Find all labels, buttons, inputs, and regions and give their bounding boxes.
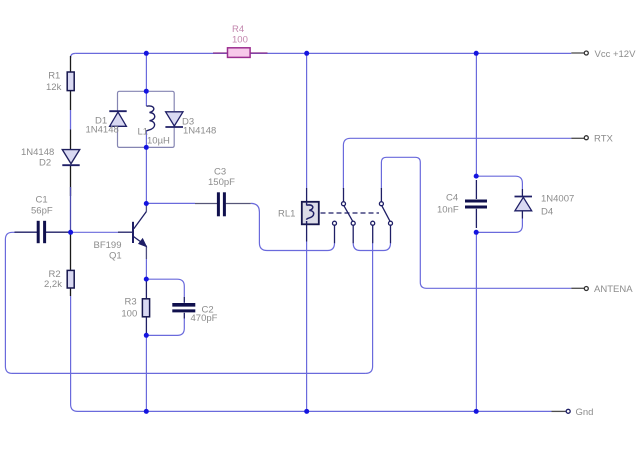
- svg-text:ANTENA: ANTENA: [594, 284, 633, 295]
- svg-text:100: 100: [121, 308, 137, 319]
- svg-text:RTX: RTX: [594, 134, 613, 145]
- svg-text:C4: C4: [446, 192, 458, 203]
- svg-text:C1: C1: [36, 195, 48, 206]
- svg-text:R3: R3: [125, 297, 137, 308]
- svg-text:1N4148: 1N4148: [183, 126, 216, 137]
- svg-text:Q1: Q1: [109, 251, 122, 262]
- svg-text:C3: C3: [214, 167, 226, 178]
- svg-text:R4: R4: [232, 24, 244, 35]
- svg-text:1N4148: 1N4148: [86, 125, 119, 136]
- svg-text:10µH: 10µH: [147, 136, 170, 147]
- svg-text:BF199: BF199: [94, 240, 122, 251]
- svg-text:12k: 12k: [46, 82, 62, 93]
- svg-text:1N4007: 1N4007: [541, 194, 574, 205]
- svg-text:D4: D4: [541, 207, 553, 218]
- svg-text:10nF: 10nF: [437, 205, 459, 216]
- svg-text:470pF: 470pF: [191, 313, 218, 324]
- svg-text:56pF: 56pF: [31, 206, 53, 217]
- svg-text:D2: D2: [39, 158, 51, 169]
- svg-text:Gnd: Gnd: [576, 407, 594, 418]
- svg-text:2,2k: 2,2k: [44, 279, 62, 290]
- svg-text:Vcc +12V: Vcc +12V: [595, 49, 637, 60]
- svg-text:150pF: 150pF: [208, 177, 235, 188]
- svg-text:R1: R1: [48, 71, 60, 82]
- svg-text:RL1: RL1: [278, 208, 295, 219]
- svg-text:1N4148: 1N4148: [21, 147, 54, 158]
- svg-text:100: 100: [232, 35, 248, 46]
